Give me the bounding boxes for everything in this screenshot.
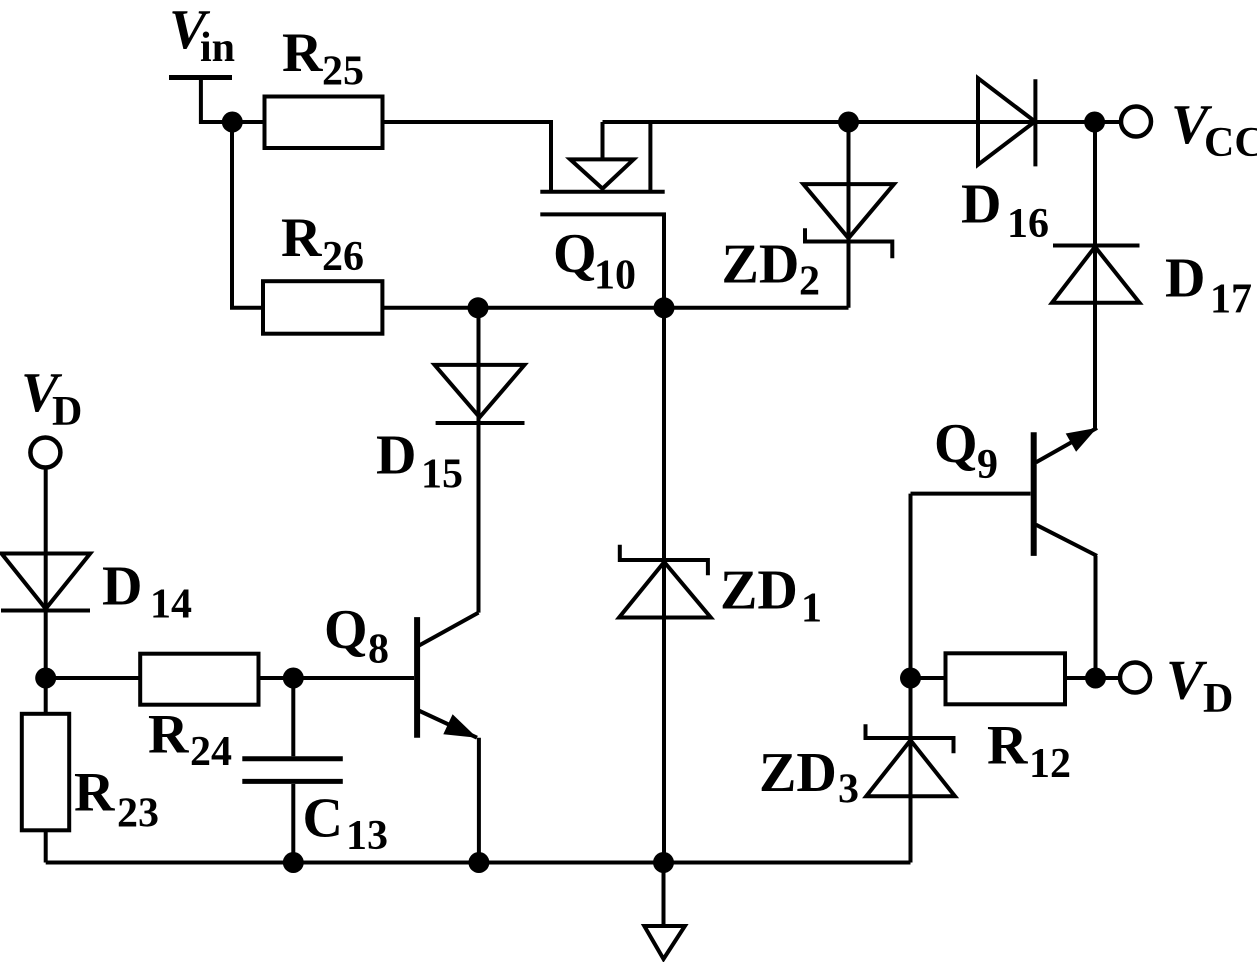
- wire Q9 collector down to R12 right: [1094, 556, 1098, 678]
- svg-text:in: in: [200, 25, 235, 71]
- svg-text:ZD: ZD: [722, 234, 800, 296]
- wire base rail D14 to R24: [46, 676, 141, 680]
- capacitor C13 bottom lead: [291, 784, 295, 863]
- svg-text:D: D: [102, 555, 142, 617]
- node junction dot D14 bottom: [35, 668, 56, 689]
- diode D17 triangle: [1052, 247, 1140, 303]
- capacitor C13 top lead: [291, 678, 295, 756]
- diode ZD1 triangle: [619, 562, 711, 618]
- wire left column Vin junction down to R26: [232, 122, 263, 308]
- node junction dot R12 right: [1085, 668, 1106, 689]
- svg-text:25: 25: [322, 49, 364, 95]
- svg-text:R: R: [74, 762, 115, 824]
- label ZD2: [722, 234, 821, 305]
- diode D14 triangle: [2, 554, 91, 609]
- transistor Q10 right leg: [648, 122, 652, 192]
- label Q8: [324, 599, 389, 672]
- transistor Q8 bar: [414, 617, 420, 738]
- diode D16 cathode bar: [1033, 79, 1037, 166]
- diode D15 triangle: [435, 365, 525, 417]
- svg-text:Q: Q: [324, 599, 368, 661]
- svg-text:D: D: [376, 424, 416, 486]
- resistor R12: [946, 653, 1066, 704]
- transistor Q10 (MOSFET) top bar: [540, 190, 664, 194]
- label VCC: [1171, 94, 1257, 166]
- diode ZD3 triangle: [866, 740, 955, 796]
- wire D15 column: [477, 308, 481, 613]
- resistor R26: [263, 281, 382, 334]
- node junction dot C13 top: [283, 668, 304, 689]
- label VD right: [1166, 649, 1233, 722]
- label R12: [987, 714, 1071, 787]
- diode ZD3 cathode bar with zener hooks: [866, 724, 954, 753]
- transistor Q8 emitter arrowhead: [443, 714, 477, 738]
- transistor Q9 bar: [1031, 432, 1037, 556]
- wire Q9 base horizontal: [911, 492, 1031, 496]
- wire R12 left lead: [911, 676, 946, 680]
- svg-text:R: R: [281, 207, 322, 269]
- svg-text:D: D: [1203, 676, 1233, 722]
- label Q9: [934, 413, 998, 488]
- node junction dot ground: [653, 852, 674, 873]
- transistor Q9 emitter arrowhead: [1066, 428, 1097, 452]
- diode ZD1 cathode bar with zener hooks: [620, 545, 708, 576]
- wire R24 to Q8 base: [259, 676, 415, 680]
- svg-text:23: 23: [117, 791, 159, 837]
- wire ZD1 column: [662, 308, 666, 863]
- label R25: [282, 22, 364, 95]
- svg-text:17: 17: [1210, 277, 1252, 323]
- resistor R24: [140, 654, 258, 705]
- transistor Q8 emitter diagonal: [419, 711, 477, 738]
- label C13: [303, 788, 389, 860]
- label ZD3: [759, 742, 859, 813]
- node VD right terminal circle: [1120, 663, 1150, 693]
- svg-text:Q: Q: [934, 413, 978, 475]
- svg-text:C: C: [303, 788, 343, 850]
- svg-text:12: 12: [1029, 741, 1071, 787]
- label Q10: [553, 223, 636, 299]
- svg-text:10: 10: [594, 253, 636, 299]
- label D15: [376, 424, 463, 497]
- wire Q9 base column / ZD3 column: [909, 494, 913, 863]
- wire R12 right lead: [1065, 676, 1120, 680]
- svg-text:D: D: [961, 174, 1001, 236]
- svg-text:13: 13: [346, 813, 388, 859]
- svg-text:9: 9: [977, 442, 998, 488]
- wire R23 bottom lead to bottom rail: [44, 830, 48, 862]
- diode D17 cathode bar: [1053, 244, 1140, 248]
- label D16: [961, 174, 1049, 247]
- svg-text:R: R: [148, 703, 189, 765]
- label VD left: [21, 362, 82, 435]
- label D14: [102, 555, 192, 627]
- wire Vin stub down: [201, 79, 232, 122]
- wire R25 to Q10 drain: [383, 122, 552, 192]
- svg-text:26: 26: [322, 234, 364, 280]
- wire R26 to mid rail: [382, 306, 848, 310]
- svg-text:8: 8: [368, 626, 389, 672]
- ground: [662, 863, 666, 927]
- diode D15 cathode bar: [436, 421, 525, 425]
- node junction dot VCC: [1084, 112, 1105, 133]
- svg-text:15: 15: [421, 451, 463, 497]
- svg-text:R: R: [282, 22, 323, 84]
- wire bottom rail: [46, 861, 911, 865]
- node Vin terminal bar: [169, 75, 232, 80]
- transistor Q9 collector diagonal: [1036, 525, 1097, 556]
- label ZD1: [720, 560, 822, 632]
- svg-text:2: 2: [799, 259, 820, 305]
- node junction dot R12 left: [900, 668, 921, 689]
- node junction dot D15 top: [468, 297, 489, 318]
- wire R23 top lead: [44, 678, 48, 714]
- diode ZD2 cathode bar with zener hooks: [805, 228, 892, 258]
- diode D14 cathode bar: [1, 609, 90, 613]
- svg-text:ZD: ZD: [759, 742, 837, 804]
- node junction dot Q8 emitter bottom: [468, 852, 489, 873]
- node junction dot ZD2 top: [838, 112, 859, 133]
- resistor R25: [265, 97, 383, 149]
- label Vin: [169, 0, 235, 71]
- label R26: [281, 207, 364, 280]
- svg-text:14: 14: [150, 582, 192, 628]
- wire ZD2 column: [847, 122, 851, 308]
- transistor Q8 collector diagonal: [419, 613, 479, 646]
- capacitor C13 plates: [242, 756, 342, 761]
- svg-text:1: 1: [801, 586, 822, 632]
- wire Q8 emitter down to bottom rail: [477, 738, 481, 863]
- svg-text:V: V: [1166, 649, 1208, 711]
- transistor Q9 emitter diagonal: [1036, 428, 1097, 463]
- wire VD left down through D14 to junction: [44, 468, 48, 679]
- svg-text:D: D: [52, 389, 82, 435]
- label R24: [148, 703, 232, 775]
- node junction dot C13 bottom: [283, 852, 304, 873]
- svg-text:24: 24: [190, 729, 232, 775]
- svg-text:CC: CC: [1204, 120, 1257, 166]
- svg-text:ZD: ZD: [720, 560, 798, 622]
- label R23: [74, 762, 159, 837]
- svg-text:D: D: [1165, 247, 1205, 309]
- diode D16 triangle: [978, 78, 1035, 165]
- svg-text:Q: Q: [553, 223, 597, 285]
- diode ZD2 (zener) triangle: [803, 184, 894, 238]
- node junction dot at Vin column / top rail: [222, 112, 243, 133]
- wire right column down through D17: [1093, 122, 1097, 428]
- svg-text:R: R: [987, 714, 1028, 776]
- label D17: [1165, 247, 1252, 322]
- resistor R23: [22, 714, 69, 831]
- wire top rail Q10 to ZD2/D16: [603, 120, 1122, 124]
- svg-text:3: 3: [838, 767, 859, 813]
- node junction dot Q10 gate / ZD1 top: [654, 297, 675, 318]
- node VCC terminal circle: [1121, 107, 1151, 137]
- wire junction to R25: [232, 120, 265, 124]
- svg-text:16: 16: [1007, 201, 1049, 247]
- transistor Q10 bulk arrow: [601, 122, 605, 159]
- transistor Q10 gate bar and gate lead down: [540, 214, 664, 307]
- node VD left terminal circle: [30, 438, 60, 468]
